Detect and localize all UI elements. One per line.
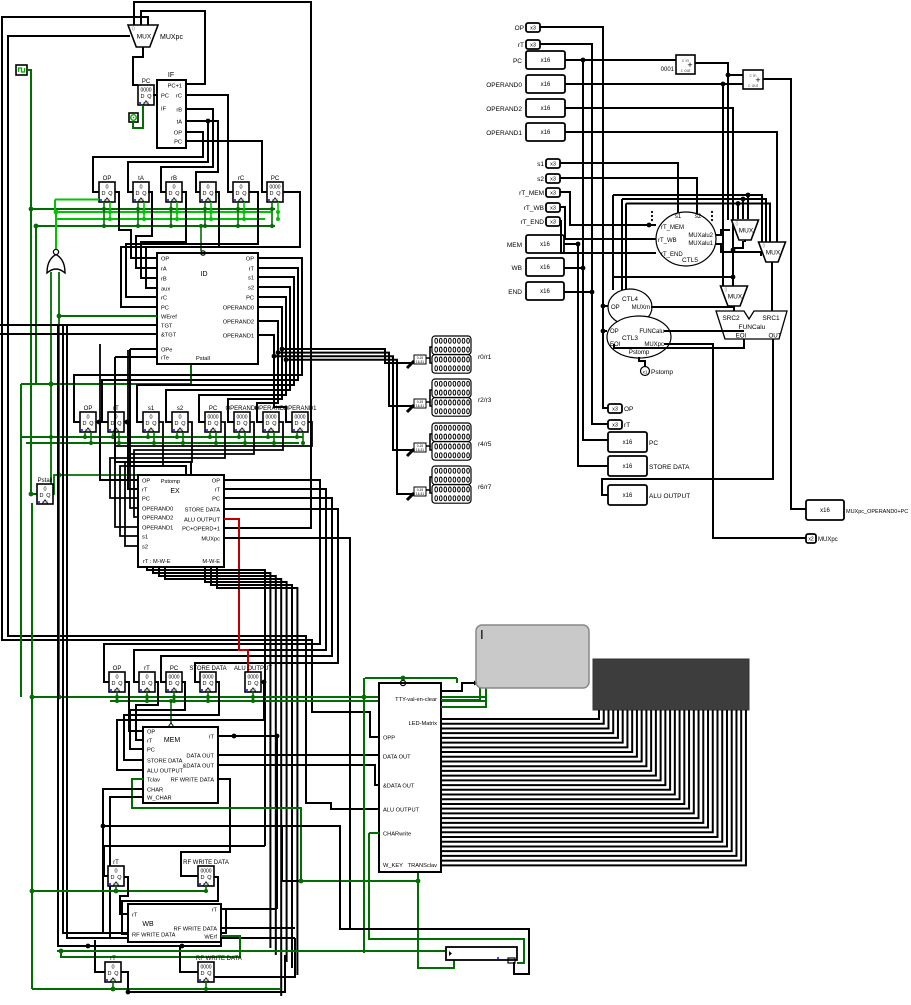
svg-text:PC: PC [209, 406, 218, 412]
svg-text:rT_WB: rT_WB [658, 238, 677, 244]
svg-text:RF WRITE DATA: RF WRITE DATA [132, 933, 176, 939]
svg-text:STORE DATA: STORE DATA [147, 759, 183, 765]
svg-text:M-W-E: M-W-E [202, 559, 220, 565]
svg-text:PC: PC [161, 306, 169, 312]
svg-text:x16: x16 [541, 58, 551, 64]
svg-text:aux: aux [161, 287, 170, 293]
svg-text:PC: PC [246, 296, 254, 302]
svg-text:WB: WB [142, 921, 154, 928]
svg-text:MUXm: MUXm [632, 305, 650, 311]
svg-text:OP: OP [161, 257, 169, 263]
svg-text:c00: c00 [203, 977, 210, 982]
svg-text:0000: 0000 [202, 675, 213, 681]
svg-text:0: 0 [145, 675, 148, 681]
svg-text:Pstomp: Pstomp [161, 479, 180, 485]
svg-text:Pstall: Pstall [196, 356, 210, 362]
svg-text:0: 0 [139, 185, 142, 191]
svg-text:x16: x16 [623, 440, 633, 446]
svg-text:x16: x16 [540, 242, 550, 248]
svg-text:x3: x3 [550, 191, 556, 197]
svg-text:0: 0 [86, 415, 89, 421]
svg-text:c00: c00 [268, 427, 275, 432]
svg-text:0000: 0000 [269, 185, 280, 191]
svg-text:ALU OUTPUT: ALU OUTPUT [184, 518, 221, 524]
svg-text:x1: x1 [643, 370, 648, 375]
svg-text:c00: c00 [138, 197, 145, 202]
svg-text:RF WRITE DATA: RF WRITE DATA [171, 778, 215, 784]
svg-text:16-31: 16-31 [416, 448, 424, 452]
svg-text:x2: x2 [808, 537, 814, 543]
svg-text:c00: c00 [42, 499, 49, 504]
svg-text:rT : M-W-E: rT : M-W-E [143, 559, 171, 565]
svg-text:OP: OP [246, 257, 254, 263]
svg-text:0000: 0000 [200, 965, 211, 971]
svg-text:OP: OP [103, 176, 112, 182]
svg-text:PC: PC [271, 176, 280, 182]
svg-text:x16: x16 [623, 493, 633, 499]
svg-text:tA: tA [138, 176, 144, 182]
svg-text:rT: rT [249, 267, 255, 273]
svg-text:PC+1: PC+1 [168, 84, 182, 90]
svg-text:OPERAND1: OPERAND1 [223, 334, 254, 340]
svg-text:x3: x3 [612, 423, 618, 429]
svg-text:rT_MEM: rT_MEM [661, 225, 684, 231]
svg-text:OPP: OPP [383, 736, 395, 742]
svg-text:TTY-val-en-clear: TTY-val-en-clear [395, 697, 437, 703]
svg-text:0001: 0001 [661, 67, 675, 73]
svg-text:0: 0 [763, 244, 766, 250]
svg-text:W_KEY: W_KEY [383, 863, 403, 869]
svg-text:0: 0 [178, 415, 181, 421]
svg-text:&DATA OUT: &DATA OUT [183, 764, 215, 770]
svg-text:ALU OUTPUT: ALU OUTPUT [147, 769, 184, 775]
svg-text:s2: s2 [177, 406, 184, 412]
svg-text:PC: PC [649, 440, 658, 447]
svg-text:STORE DATA: STORE DATA [649, 464, 690, 471]
svg-text:r0/r1: r0/r1 [478, 354, 492, 361]
svg-text:c00: c00 [238, 197, 245, 202]
svg-text:FUNCalu: FUNCalu [639, 329, 664, 335]
svg-text:c00: c00 [210, 427, 217, 432]
svg-text:x16: x16 [623, 464, 633, 470]
svg-text:ID: ID [201, 271, 208, 278]
svg-text:TRANSclav: TRANSclav [408, 863, 438, 869]
svg-text:rB: rB [176, 108, 182, 114]
svg-text:tA: tA [177, 120, 183, 126]
svg-text:c00: c00 [143, 100, 150, 105]
svg-text:x3: x3 [530, 43, 536, 49]
svg-text:x16: x16 [541, 82, 551, 88]
svg-text:OPERAND0: OPERAND0 [142, 507, 173, 513]
svg-text:s2: s2 [248, 286, 254, 292]
svg-text:rT: rT [144, 666, 150, 672]
svg-text:+: + [687, 60, 692, 70]
svg-text:c00: c00 [85, 427, 92, 432]
svg-text:DATA OUT: DATA OUT [383, 755, 411, 761]
svg-text:rB: rB [161, 277, 167, 283]
svg-text:0000: 0000 [140, 88, 151, 94]
svg-text:MUX: MUX [739, 227, 754, 234]
svg-text:&TGT: &TGT [161, 333, 177, 339]
svg-text:s1: s1 [248, 276, 254, 282]
svg-text:OP: OP [610, 329, 619, 335]
svg-text:OPERAND0: OPERAND0 [486, 82, 522, 89]
svg-text:SRC1: SRC1 [762, 315, 780, 322]
svg-text:0: 0 [114, 869, 117, 875]
svg-text:16-31: 16-31 [416, 404, 424, 408]
svg-text:0: 0 [111, 965, 114, 971]
svg-text:MUXpc: MUXpc [818, 537, 838, 543]
svg-text:STORE DATA: STORE DATA [185, 508, 221, 514]
svg-text:rT: rT [212, 908, 218, 914]
svg-text:OP: OP [515, 25, 524, 32]
svg-text:rT_END: rT_END [661, 252, 683, 258]
svg-text:c00: c00 [148, 427, 155, 432]
svg-text:WEref: WEref [161, 315, 177, 321]
svg-text:OPERAND2: OPERAND2 [223, 320, 254, 326]
svg-text:c00: c00 [104, 197, 111, 202]
svg-text:rT: rT [113, 860, 119, 866]
svg-text:WErf: WErf [204, 935, 217, 941]
svg-text:MUXpc_OPERAND0+PC: MUXpc_OPERAND0+PC [846, 509, 908, 515]
svg-text:EX: EX [170, 488, 180, 495]
svg-text:0000: 0000 [236, 415, 247, 421]
svg-text:c00: c00 [272, 197, 279, 202]
svg-text:IF: IF [168, 72, 174, 79]
svg-text:PC: PC [142, 79, 151, 85]
svg-text:&DATA OUT: &DATA OUT [383, 784, 415, 790]
svg-text:s2: s2 [537, 176, 544, 183]
svg-text:rT_WB: rT_WB [524, 205, 544, 212]
svg-text:OPERAND1: OPERAND1 [142, 526, 173, 532]
svg-text:rC: rC [176, 94, 182, 100]
svg-text:r4/r5: r4/r5 [478, 441, 492, 448]
svg-text:c00: c00 [297, 427, 304, 432]
svg-text:EOI: EOI [736, 333, 747, 340]
svg-text:PC+OPERD+1: PC+OPERD+1 [182, 527, 220, 533]
svg-text:MEM: MEM [164, 737, 181, 744]
svg-text:MUX: MUX [766, 249, 781, 256]
svg-text:Pstomp: Pstomp [629, 350, 650, 356]
svg-text:c00: c00 [144, 687, 151, 692]
svg-text:c00: c00 [113, 427, 120, 432]
svg-text:c00: c00 [205, 197, 212, 202]
svg-text:STORE DATA: STORE DATA [189, 666, 226, 672]
svg-text:16-31: 16-31 [416, 360, 424, 364]
svg-text:MUX: MUX [137, 34, 152, 41]
svg-text:0000: 0000 [200, 869, 211, 875]
svg-text:s2: s2 [695, 214, 702, 220]
svg-text:rT: rT [215, 488, 221, 494]
svg-text:ALU OUTPUT: ALU OUTPUT [649, 493, 690, 500]
svg-text:OPe: OPe [161, 348, 172, 354]
svg-text:rT: rT [147, 739, 153, 745]
svg-text:PC: PC [142, 497, 150, 503]
svg-text:TGT: TGT [161, 324, 173, 330]
svg-text:CTL5: CTL5 [682, 257, 698, 264]
svg-text:END: END [508, 289, 522, 296]
svg-text:16-31: 16-31 [416, 492, 424, 496]
svg-text:c00: c00 [177, 427, 184, 432]
svg-text:rT: rT [624, 422, 630, 429]
svg-text:c00: c00 [205, 687, 212, 692]
svg-text:x16: x16 [541, 130, 551, 136]
svg-text:x3: x3 [530, 26, 536, 32]
svg-text:RF WRITE DATA: RF WRITE DATA [183, 860, 229, 866]
svg-text:x3: x3 [550, 220, 556, 226]
svg-text:W_CHAR: W_CHAR [147, 796, 172, 802]
svg-text:MUXalu1: MUXalu1 [688, 241, 713, 247]
svg-text:0000: 0000 [247, 675, 258, 681]
svg-text:0: 0 [172, 185, 175, 191]
svg-text:r2/r3: r2/r3 [478, 397, 492, 404]
svg-text:x3: x3 [612, 407, 618, 413]
svg-text:IF: IF [161, 107, 167, 113]
svg-text:MUX: MUX [728, 293, 743, 300]
svg-text:MUXalu2: MUXalu2 [688, 233, 713, 239]
svg-text:ALU OUTPUT: ALU OUTPUT [383, 808, 420, 814]
svg-text:OP: OP [147, 730, 155, 736]
svg-text:OP: OP [84, 406, 93, 412]
svg-text:c00: c00 [114, 687, 121, 692]
svg-text:r6/r7: r6/r7 [478, 484, 492, 491]
svg-text:OP: OP [142, 479, 150, 485]
svg-text:DATA OUT: DATA OUT [186, 754, 214, 760]
svg-text:rT_END: rT_END [521, 219, 545, 226]
svg-text:OP: OP [113, 666, 122, 672]
svg-text:MUXpc: MUXpc [160, 34, 183, 41]
svg-text:OP: OP [212, 479, 220, 485]
svg-text:RF WRITE DATA: RF WRITE DATA [174, 927, 218, 933]
svg-text:ALU OUTPUT: ALU OUTPUT [234, 666, 272, 672]
svg-text:RF WRITE DATA: RF WRITE DATA [196, 956, 242, 962]
svg-text:0: 0 [43, 487, 46, 493]
svg-text:OUT: OUT [768, 333, 781, 340]
svg-text:rT: rT [110, 956, 116, 962]
svg-text:rT: rT [142, 488, 148, 494]
svg-text:PC: PC [170, 666, 179, 672]
svg-text:OP: OP [611, 305, 620, 311]
svg-text:OPERAND2: OPERAND2 [142, 516, 173, 522]
svg-text:c00: c00 [110, 977, 117, 982]
svg-text:0: 0 [239, 185, 242, 191]
svg-text:Pstall: Pstall [38, 478, 53, 484]
svg-text:0000: 0000 [168, 675, 179, 681]
svg-text:rT: rT [518, 42, 524, 49]
svg-text:PC: PC [513, 58, 522, 65]
svg-text:PC: PC [212, 497, 220, 503]
svg-text:s1: s1 [675, 214, 682, 220]
svg-text:0000: 0000 [207, 415, 218, 421]
svg-text:WB: WB [512, 265, 522, 272]
svg-text:OPERAND1: OPERAND1 [486, 130, 522, 137]
svg-text:CHAR: CHAR [147, 788, 163, 794]
svg-text:c00: c00 [250, 687, 257, 692]
svg-text:OPERAND0: OPERAND0 [223, 306, 254, 312]
svg-text:0: 0 [149, 415, 152, 421]
svg-text:OPERAND1: OPERAND1 [283, 406, 317, 412]
svg-text:rT: rT [209, 735, 215, 741]
svg-text:Tclav: Tclav [147, 778, 160, 784]
svg-text:x16: x16 [540, 265, 550, 271]
svg-text:s1: s1 [148, 406, 155, 412]
svg-text:FUNCalu: FUNCalu [739, 324, 766, 331]
svg-text:0: 0 [115, 675, 118, 681]
svg-text:MEM: MEM [507, 242, 522, 249]
svg-text:OP: OP [624, 406, 633, 413]
svg-text:0000: 0000 [265, 415, 276, 421]
svg-text:CTL3: CTL3 [622, 335, 638, 342]
svg-text:s1: s1 [142, 535, 148, 541]
svg-text:s2: s2 [142, 545, 148, 551]
svg-text:LED-Matrix: LED-Matrix [409, 721, 438, 727]
svg-text:Pstomp: Pstomp [651, 369, 673, 376]
svg-text:0: 0 [105, 185, 108, 191]
svg-text:c00: c00 [239, 427, 246, 432]
svg-text:x3: x3 [550, 177, 556, 183]
svg-text:rC: rC [238, 176, 245, 182]
svg-text:c00: c00 [171, 687, 178, 692]
svg-text:rTe: rTe [161, 356, 169, 362]
svg-text:PC: PC [161, 94, 169, 100]
svg-text:x3: x3 [550, 206, 556, 212]
svg-text:CTL4: CTL4 [622, 296, 638, 303]
svg-text:c00: c00 [113, 881, 120, 886]
svg-text:+: + [755, 75, 760, 85]
svg-text:c00: c00 [171, 197, 178, 202]
svg-text:x3: x3 [550, 162, 556, 168]
svg-text:CHARwrite: CHARwrite [383, 832, 411, 838]
svg-text:c00: c00 [203, 881, 210, 886]
svg-text:x16: x16 [820, 508, 830, 514]
svg-text:rT_MEM: rT_MEM [519, 190, 544, 197]
svg-text:0000: 0000 [294, 415, 305, 421]
svg-text:x16: x16 [540, 289, 550, 295]
svg-text:rT: rT [132, 913, 138, 919]
svg-text:0: 0 [736, 222, 739, 228]
svg-text:rC: rC [161, 296, 167, 302]
svg-text:OPERAND2: OPERAND2 [486, 106, 522, 113]
svg-text:MUXpc: MUXpc [201, 537, 220, 543]
svg-text:0: 0 [206, 185, 209, 191]
svg-text:OP: OP [174, 131, 182, 137]
svg-text:0: 0 [132, 27, 135, 33]
svg-text:s1: s1 [537, 161, 544, 168]
svg-text:PC: PC [147, 748, 155, 754]
svg-text:PC: PC [174, 140, 182, 146]
svg-text:SRC2: SRC2 [722, 315, 740, 322]
svg-text:x16: x16 [541, 106, 551, 112]
svg-text:rA: rA [161, 267, 167, 273]
svg-text:0: 0 [725, 288, 728, 294]
svg-text:rB: rB [171, 176, 177, 182]
